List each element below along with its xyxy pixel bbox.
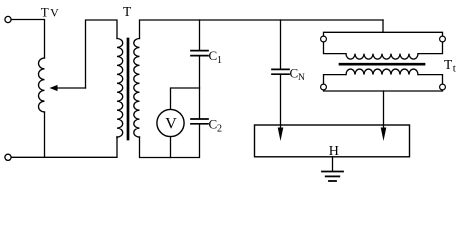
wire bottom bus left <box>11 137 117 157</box>
label Tt <box>444 57 456 75</box>
Tt top box terminal right <box>440 36 446 42</box>
terminal top-left <box>5 16 11 22</box>
Tt core <box>340 63 424 66</box>
wire T primary bottom (joined to bottom bus left) <box>116 137 118 138</box>
capacitor CN <box>272 68 289 70</box>
H box <box>255 125 410 157</box>
capacitor C1 drop <box>199 20 201 50</box>
label TV <box>41 4 59 19</box>
svg-text:T: T <box>123 4 132 19</box>
wiper arrow of TV <box>57 87 86 89</box>
wire variac bottom <box>44 112 46 157</box>
Tt primary winding <box>346 54 418 60</box>
wire C1 to C2 <box>199 56 201 119</box>
svg-text:T: T <box>444 57 453 72</box>
wire wiper to T primary top <box>86 20 118 88</box>
wire voltmeter bottom <box>170 137 172 158</box>
svg-text:C: C <box>209 48 218 63</box>
transformer T core <box>127 39 130 139</box>
svg-text:T: T <box>41 4 49 19</box>
voltmeter V <box>157 109 184 136</box>
wire CN to H box with arrow <box>280 75 282 129</box>
transformer T secondary winding <box>134 39 140 138</box>
capacitor C2 <box>191 118 208 120</box>
svg-text:C: C <box>290 66 299 81</box>
transformer T primary winding <box>117 39 123 138</box>
wire voltmeter branch <box>171 88 200 109</box>
terminal bottom-left <box>5 154 11 160</box>
Tt bottom box <box>324 75 443 91</box>
wire T secondary bottom + measuring bus <box>140 124 200 158</box>
wire T secondary top to top bus <box>140 20 384 39</box>
svg-text:t: t <box>453 63 456 75</box>
variac winding TV <box>39 58 45 112</box>
label T <box>123 4 132 19</box>
svg-text:C: C <box>209 116 218 131</box>
wire Tt secondary to H box with arrow <box>383 91 385 129</box>
capacitor CN drop <box>280 20 282 69</box>
Tt top box terminal left <box>321 36 327 42</box>
Tt bottom box terminal left <box>321 84 327 90</box>
svg-text:V: V <box>165 116 177 133</box>
svg-text:2: 2 <box>217 123 222 134</box>
Tt secondary winding <box>346 69 418 75</box>
svg-text:H: H <box>329 144 339 159</box>
Tt top box <box>324 32 443 53</box>
label H <box>329 144 339 159</box>
wire top bus to Tt <box>382 20 384 32</box>
wire top-left to variac top <box>11 20 44 59</box>
svg-text:1: 1 <box>217 55 222 66</box>
capacitor C1 <box>191 50 208 52</box>
ground <box>332 157 334 172</box>
Tt bottom box terminal right <box>440 84 446 90</box>
svg-text:V: V <box>50 5 59 19</box>
svg-text:N: N <box>298 73 305 83</box>
